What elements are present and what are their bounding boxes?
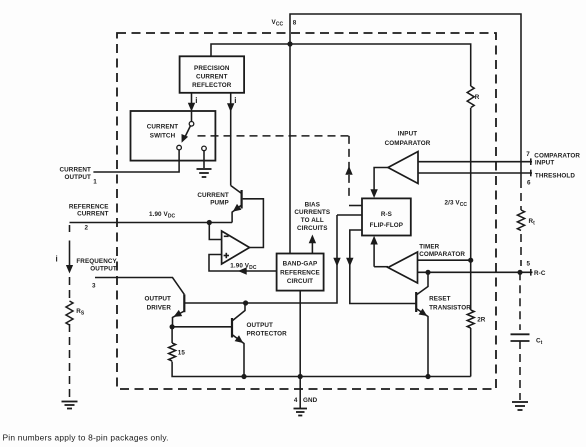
svg-text:REFERENCE: REFERENCE: [69, 204, 109, 211]
svg-text:CIRCUIT: CIRCUIT: [287, 278, 313, 285]
svg-text:PUMP: PUMP: [210, 200, 229, 207]
svg-text:CURRENT: CURRENT: [196, 74, 228, 81]
svg-text:RESET: RESET: [429, 296, 451, 303]
svg-text:TRANSISTOR: TRANSISTOR: [429, 305, 471, 312]
svg-text:5: 5: [527, 261, 531, 268]
svg-text:RS: RS: [76, 308, 85, 317]
svg-text:DRIVER: DRIVER: [147, 305, 172, 312]
svg-text:4: 4: [294, 397, 298, 404]
svg-text:i: i: [56, 255, 58, 264]
svg-text:15: 15: [178, 349, 186, 356]
svg-text:COMPARATOR: COMPARATOR: [419, 251, 465, 258]
svg-text:BAND-GAP: BAND-GAP: [283, 261, 318, 268]
svg-text:i: i: [234, 96, 236, 105]
svg-text:6: 6: [527, 180, 531, 187]
svg-text:1: 1: [93, 179, 97, 186]
svg-text:OUTPUT: OUTPUT: [145, 296, 172, 303]
svg-text:VCC: VCC: [272, 19, 284, 28]
svg-text:OUTPUT: OUTPUT: [65, 174, 92, 181]
svg-text:BIAS: BIAS: [305, 201, 320, 208]
svg-text:CURRENT: CURRENT: [147, 124, 179, 131]
svg-text:3: 3: [92, 283, 96, 290]
svg-text:GND: GND: [303, 397, 318, 404]
svg-text:CURRENTS: CURRENTS: [294, 209, 330, 216]
svg-text:COMPARATOR: COMPARATOR: [385, 140, 431, 147]
svg-text:PROTECTOR: PROTECTOR: [247, 331, 288, 338]
svg-text:CIRCUITS: CIRCUITS: [297, 225, 328, 232]
svg-text:THRESHOLD: THRESHOLD: [535, 172, 575, 179]
svg-text:2: 2: [85, 225, 89, 232]
svg-text:R: R: [475, 94, 480, 101]
svg-text:8: 8: [293, 20, 297, 27]
svg-text:INPUT: INPUT: [535, 159, 554, 166]
svg-text:SWITCH: SWITCH: [150, 133, 176, 140]
svg-text:Ct: Ct: [536, 338, 543, 347]
svg-text:REFLECTOR: REFLECTOR: [192, 82, 232, 89]
svg-text:1.90 VDC: 1.90 VDC: [149, 211, 176, 220]
svg-text:REFERENCE: REFERENCE: [280, 269, 320, 276]
svg-text:Pin numbers apply to 8-pin pac: Pin numbers apply to 8-pin packages only…: [3, 433, 169, 443]
svg-text:INPUT: INPUT: [398, 131, 417, 138]
svg-text:Rt: Rt: [529, 218, 536, 227]
svg-text:CURRENT: CURRENT: [60, 166, 92, 173]
svg-text:CURRENT: CURRENT: [197, 192, 229, 199]
svg-text:TIMER: TIMER: [419, 243, 439, 250]
svg-text:FLIP-FLOP: FLIP-FLOP: [370, 222, 403, 229]
svg-text:7: 7: [526, 151, 530, 158]
svg-text:PRECISION: PRECISION: [194, 65, 230, 72]
svg-text:OUTPUT: OUTPUT: [90, 266, 117, 273]
svg-text:OUTPUT: OUTPUT: [247, 322, 274, 329]
svg-text:i: i: [195, 96, 197, 105]
svg-text:2/3 VCC: 2/3 VCC: [445, 200, 468, 209]
svg-text:R-C: R-C: [534, 270, 546, 277]
svg-text:FREQUENCY: FREQUENCY: [76, 258, 117, 265]
svg-text:CURRENT: CURRENT: [77, 211, 109, 218]
svg-text:TO ALL: TO ALL: [301, 217, 324, 224]
svg-text:R-S: R-S: [381, 211, 392, 218]
svg-text:2R: 2R: [477, 317, 486, 324]
